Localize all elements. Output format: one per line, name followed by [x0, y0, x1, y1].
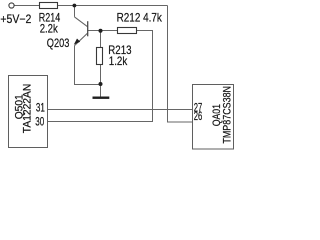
svg-text:30: 30 [35, 116, 44, 128]
svg-text:2.2k: 2.2k [40, 22, 59, 36]
svg-text:Q203: Q203 [47, 36, 70, 50]
svg-text:TA1222AN: TA1222AN [21, 84, 33, 134]
svg-text:26: 26 [194, 111, 203, 123]
svg-text:TMP87CS38N: TMP87CS38N [221, 86, 233, 144]
svg-text:31: 31 [36, 103, 45, 115]
svg-text:+5V−2: +5V−2 [0, 12, 31, 26]
svg-text:1.2k: 1.2k [109, 54, 128, 68]
svg-text:R212 4.7k: R212 4.7k [117, 11, 163, 25]
